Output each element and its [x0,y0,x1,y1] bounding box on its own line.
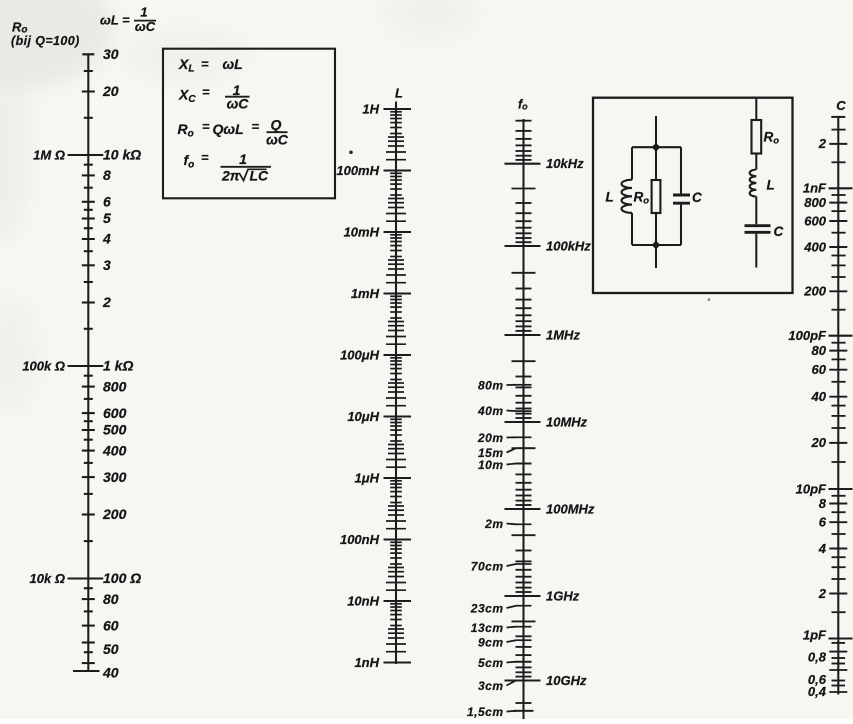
svg-text:10 kΩ: 10 kΩ [103,147,141,163]
svg-text:80: 80 [812,343,827,358]
svg-text:40: 40 [102,664,119,680]
svg-text:10GHz: 10GHz [546,673,587,688]
svg-text:1 kΩ: 1 kΩ [103,358,133,374]
svg-text:20m: 20m [477,431,504,445]
svg-text:ωL: ωL [223,56,243,72]
svg-text:2m: 2m [484,517,503,531]
svg-text:=: = [201,56,209,71]
svg-text:500: 500 [103,422,127,438]
svg-text:10m: 10m [478,458,504,472]
svg-text:1mH: 1mH [351,286,380,301]
svg-text:2π: 2π [221,168,241,184]
svg-text:10pF: 10pF [796,481,827,496]
svg-text:10kHz: 10kHz [546,156,584,171]
svg-text:100pF: 100pF [788,328,827,343]
svg-text:C: C [692,190,702,205]
svg-text:5: 5 [103,210,111,226]
svg-text:100MHz: 100MHz [546,502,595,517]
svg-text:LC: LC [250,168,270,184]
svg-text:1nH: 1nH [354,655,379,670]
svg-text:400: 400 [102,442,127,458]
svg-text:3: 3 [103,257,111,273]
svg-text:100 Ω: 100 Ω [103,570,141,586]
svg-text:C: C [774,224,784,239]
svg-text:2: 2 [818,136,827,151]
svg-text:1M Ω: 1M Ω [33,148,65,163]
svg-text:10mH: 10mH [344,224,380,239]
svg-text:80m: 80m [478,378,504,392]
svg-text:1pF: 1pF [803,627,827,642]
svg-text:50: 50 [103,641,119,657]
svg-text:13cm: 13cm [471,621,504,635]
svg-text:23cm: 23cm [470,601,504,615]
svg-text:3cm: 3cm [478,679,504,693]
svg-text:2: 2 [818,586,827,601]
svg-text:100mH: 100mH [336,163,379,178]
svg-text:40m: 40m [477,404,504,418]
svg-text:6: 6 [819,515,827,530]
svg-text:QωL: QωL [213,121,244,137]
svg-text:9cm: 9cm [478,635,504,649]
svg-text:=: = [252,119,260,134]
svg-text:40: 40 [811,389,827,404]
svg-text:1H: 1H [362,101,379,116]
svg-text:60: 60 [103,617,119,633]
svg-text:L: L [767,178,775,193]
svg-text:70cm: 70cm [471,559,504,573]
svg-text:4: 4 [102,231,111,247]
svg-text:100nH: 100nH [340,532,380,547]
svg-text:1nF: 1nF [803,181,827,196]
svg-text:6: 6 [103,194,111,210]
svg-text:ωC: ωC [227,96,250,112]
svg-text:ωL =: ωL = [100,12,130,27]
svg-text:1,5cm: 1,5cm [467,705,504,719]
svg-text:200: 200 [803,284,826,299]
svg-text:1MHz: 1MHz [546,328,580,343]
svg-text:400: 400 [803,239,826,254]
svg-text:80: 80 [103,591,119,607]
svg-text:L: L [395,86,403,101]
svg-text:200: 200 [102,506,127,522]
svg-text:10MHz: 10MHz [546,415,588,430]
svg-text:10μH: 10μH [347,409,379,424]
svg-text:=: = [201,150,209,165]
svg-text:300: 300 [103,469,127,485]
svg-text:=: = [202,119,210,134]
svg-text:L: L [606,190,614,205]
svg-text:ωC: ωC [266,132,289,148]
svg-text:100μH: 100μH [340,347,380,362]
svg-text:(bij Q=100): (bij Q=100) [11,34,80,48]
svg-text:1: 1 [239,151,247,167]
svg-text:20: 20 [102,83,119,99]
svg-text:10nH: 10nH [347,593,379,608]
svg-text:800: 800 [804,195,826,210]
svg-text:1GHz: 1GHz [546,589,580,604]
svg-text:600: 600 [804,213,826,228]
svg-text:0,8: 0,8 [808,649,827,664]
svg-text:8: 8 [103,167,111,183]
svg-text:10k Ω: 10k Ω [30,571,65,586]
svg-text:1μH: 1μH [355,470,380,485]
svg-text:Q: Q [271,117,282,133]
svg-text:C: C [836,98,846,113]
svg-text:100k Ω: 100k Ω [22,359,65,374]
svg-text:800: 800 [103,378,127,394]
svg-text:0,4: 0,4 [808,684,827,699]
svg-text:20: 20 [811,435,827,450]
svg-text:600: 600 [103,405,127,421]
svg-text:8: 8 [819,496,827,511]
svg-text:2: 2 [102,294,111,310]
svg-text:60: 60 [812,362,827,377]
svg-text:ωC: ωC [135,19,156,34]
svg-text:5cm: 5cm [478,656,504,670]
svg-text:=: = [202,85,210,100]
svg-text:30: 30 [103,46,119,62]
svg-text:1: 1 [140,5,147,20]
svg-text:100kHz: 100kHz [546,239,591,254]
svg-text:4: 4 [818,541,827,556]
